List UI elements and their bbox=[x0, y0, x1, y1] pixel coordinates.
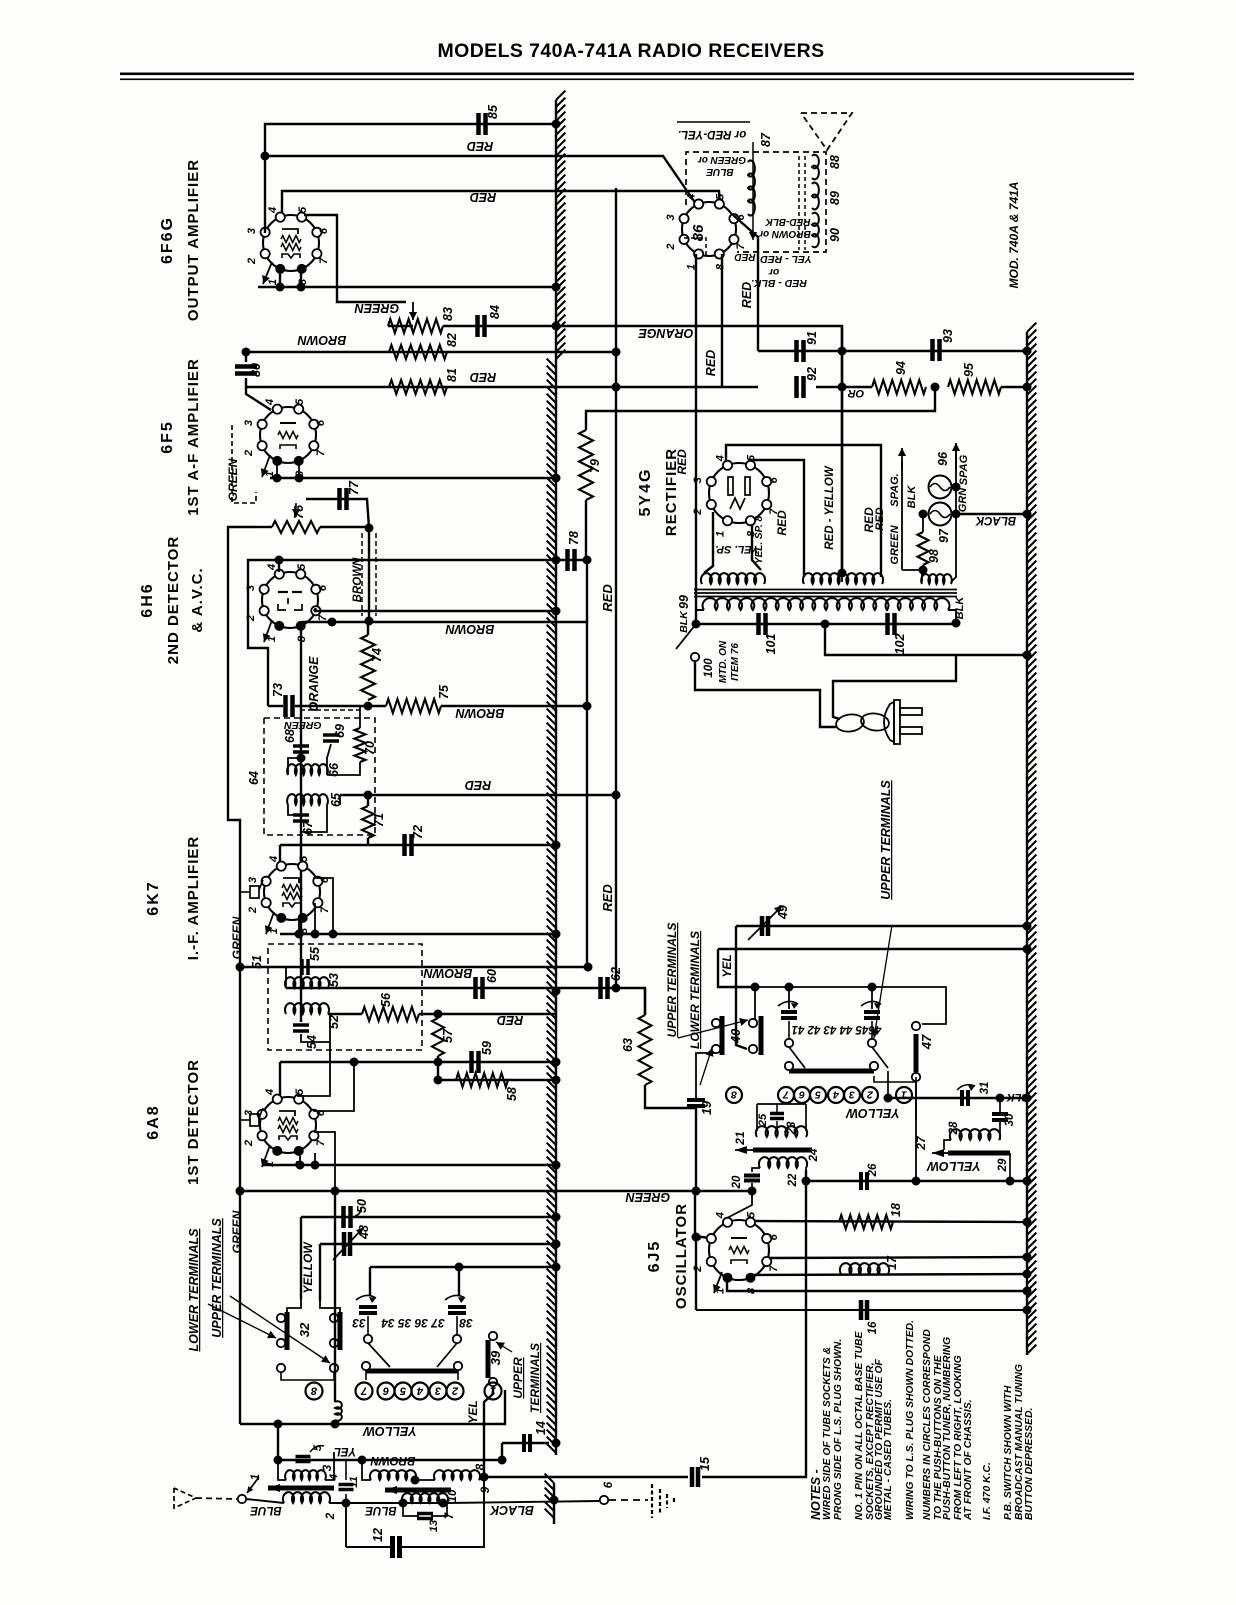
svg-text:MOD. 740A & 741A: MOD. 740A & 741A bbox=[1007, 182, 1021, 289]
row YELLOW y=1424 bbox=[240, 1390, 505, 1424]
row y=926 variable cap 49 bbox=[736, 925, 1027, 927]
trimmer cap 38 bbox=[448, 1305, 466, 1309]
resistor 74 bbox=[361, 635, 375, 700]
row y=478 cathode 6F5 bbox=[270, 477, 556, 479]
svg-text:4: 4 bbox=[833, 1089, 840, 1101]
svg-text:69: 69 bbox=[333, 724, 347, 738]
wire cap80 stubs bbox=[245, 352, 247, 362]
svg-text:6: 6 bbox=[318, 227, 330, 234]
bus junction y=326 bbox=[552, 322, 561, 331]
wire 29 to row 1181 bbox=[1009, 1153, 1011, 1181]
circled pushbutton osc 3 bbox=[844, 1087, 860, 1103]
antenna symbol bbox=[174, 1488, 196, 1508]
capacitor 55 bbox=[300, 959, 304, 975]
wire plate lead 6F6G bbox=[264, 156, 266, 233]
svg-text:BROWN: BROWN bbox=[297, 333, 347, 347]
svg-text:RED: RED bbox=[600, 884, 615, 912]
svg-text:BROWN: BROWN bbox=[352, 557, 364, 602]
right bus junction y=655 bbox=[1023, 651, 1032, 660]
svg-text:45 44 43 42: 45 44 43 42 bbox=[807, 1023, 869, 1035]
speaker voice coil 88 bbox=[812, 155, 819, 180]
coil 53 left leg bbox=[285, 967, 287, 988]
speaker cone dashed bbox=[801, 113, 852, 150]
wire pin1 to mains switch bbox=[695, 254, 697, 624]
svg-text:5: 5 bbox=[294, 398, 306, 405]
chassis bus segment bottom bbox=[553, 1483, 555, 1524]
svg-text:RED: RED bbox=[874, 507, 886, 530]
row y=1267 bbox=[370, 1266, 556, 1268]
svg-text:31: 31 bbox=[979, 1082, 991, 1095]
wire x=301 down bbox=[300, 1217, 302, 1299]
svg-text:84: 84 bbox=[488, 305, 502, 319]
coil 23 bbox=[756, 1126, 807, 1137]
svg-text:96: 96 bbox=[936, 451, 950, 466]
svg-text:5: 5 bbox=[312, 1444, 324, 1451]
centre tap dot bbox=[838, 569, 847, 578]
capacitor 77 row bbox=[306, 499, 369, 528]
circled pushbutton 3 bbox=[430, 1383, 447, 1400]
svg-text:YEL: YEL bbox=[466, 1400, 480, 1423]
svg-text:51: 51 bbox=[250, 955, 264, 969]
svg-text:91: 91 bbox=[805, 331, 819, 345]
row y=1222 resistor 18 bbox=[754, 1221, 1027, 1222]
svg-text:3: 3 bbox=[435, 1385, 441, 1397]
svg-text:5: 5 bbox=[399, 1385, 406, 1397]
row y=988 right cap 62 bbox=[556, 988, 645, 1015]
svg-text:55: 55 bbox=[308, 946, 322, 961]
svg-text:5: 5 bbox=[746, 1211, 758, 1218]
svg-text:5: 5 bbox=[297, 206, 309, 213]
svg-text:19: 19 bbox=[700, 1101, 714, 1115]
svg-text:SPAG.: SPAG. bbox=[889, 473, 901, 506]
wire res63 to cap19 bbox=[645, 1085, 696, 1108]
circled pushbutton osc 6 bbox=[794, 1087, 810, 1103]
bus junction y=560 bbox=[552, 556, 561, 565]
B+ RED vertical x=616 bbox=[615, 188, 617, 988]
svg-text:97: 97 bbox=[937, 528, 951, 543]
svg-text:ITEM 76: ITEM 76 bbox=[730, 643, 741, 681]
svg-text:2: 2 bbox=[245, 615, 257, 622]
wire coil65 to row bbox=[339, 795, 341, 805]
wire pin8 stub bbox=[279, 268, 281, 287]
capacitor 85 bbox=[476, 113, 481, 135]
svg-text:3: 3 bbox=[849, 1089, 855, 1101]
svg-text:GRN: GRN bbox=[957, 487, 969, 513]
svg-text:7: 7 bbox=[768, 1265, 780, 1272]
coil 53 bbox=[285, 977, 329, 988]
antenna trim row y=1098 bbox=[887, 1071, 889, 1098]
svg-text:92: 92 bbox=[805, 367, 819, 381]
6.3V winding to lamps bbox=[922, 570, 923, 582]
svg-text:71: 71 bbox=[372, 813, 386, 827]
svg-text:BLK: BLK bbox=[906, 485, 918, 509]
row y=988 BROWN to bus bbox=[286, 987, 556, 989]
svg-text:RED: RED bbox=[675, 449, 689, 475]
row y=1062 cap 59 bbox=[437, 1056, 439, 1080]
svg-text:& A.V.C.: & A.V.C. bbox=[189, 567, 206, 632]
slug arrow 1 bbox=[247, 1477, 259, 1493]
right bus junction y=387 bbox=[1023, 383, 1032, 392]
coil 66 bbox=[287, 764, 328, 775]
svg-text:6: 6 bbox=[768, 1233, 780, 1240]
cap16 row real bbox=[696, 1309, 1027, 1311]
svg-text:94: 94 bbox=[894, 361, 908, 375]
plate feed left bbox=[752, 460, 804, 577]
circled pushbutton osc 8 bbox=[726, 1087, 742, 1103]
row y=949 bbox=[718, 948, 1027, 950]
bus junction y=1443 bbox=[552, 1439, 561, 1448]
terminal bar 39 bbox=[486, 1340, 491, 1378]
svg-text:METAL - CASED TUBES.: METAL - CASED TUBES. bbox=[883, 1399, 894, 1520]
svg-text:85: 85 bbox=[486, 104, 500, 119]
transformer core bbox=[694, 589, 957, 591]
bus junction y=1165 bbox=[552, 1161, 561, 1170]
wire res79 to cap78 node bbox=[585, 500, 587, 560]
pilot lamp 97 bbox=[929, 503, 952, 526]
tube socket 86 bbox=[682, 202, 736, 256]
6A8 pin6 riser to row 1062 bbox=[313, 1062, 354, 1111]
speaker field coil 87 bbox=[748, 160, 755, 215]
svg-text:RED: RED bbox=[600, 584, 615, 612]
terminal bar 32 left bbox=[285, 1312, 290, 1350]
svg-text:BROWN: BROWN bbox=[445, 622, 495, 636]
svg-text:BROWN: BROWN bbox=[455, 706, 505, 720]
coil 9 bbox=[370, 1470, 416, 1480]
svg-text:90: 90 bbox=[828, 228, 842, 242]
bus junction y=845 bbox=[552, 841, 561, 850]
svg-text:RED: RED bbox=[704, 350, 718, 376]
row y=1460 bbox=[278, 1459, 502, 1461]
circled pushbutton 4 bbox=[412, 1383, 429, 1400]
svg-text:6: 6 bbox=[603, 1481, 615, 1488]
svg-text:29: 29 bbox=[997, 1158, 1009, 1172]
svg-text:YELLOW: YELLOW bbox=[301, 1241, 315, 1294]
svg-text:5: 5 bbox=[815, 1089, 821, 1101]
osc transformer rail bbox=[757, 1103, 806, 1105]
circled pushbutton 6 bbox=[378, 1383, 395, 1400]
svg-text:5: 5 bbox=[298, 855, 310, 862]
slug bar 29 arrow 27 bbox=[948, 1151, 1010, 1156]
svg-text:YELLOW: YELLOW bbox=[845, 1106, 900, 1120]
speaker coil 89 bbox=[812, 183, 819, 210]
svg-text:93: 93 bbox=[941, 329, 955, 343]
volume control resistor 76 bbox=[272, 521, 320, 533]
capacitor 69 bbox=[323, 733, 339, 737]
svg-text:RED - YELLOW: RED - YELLOW bbox=[824, 465, 836, 550]
wire coil9 frame bbox=[362, 1460, 371, 1480]
svg-text:4: 4 bbox=[264, 399, 276, 406]
bus junction y=991 bbox=[552, 987, 561, 996]
capacitor 68 bbox=[293, 744, 309, 748]
svg-text:64: 64 bbox=[247, 771, 261, 785]
row y=655 to bus bbox=[825, 624, 1027, 655]
svg-text:6: 6 bbox=[382, 1385, 389, 1397]
wire cathode row y=287 bbox=[258, 286, 556, 288]
svg-text:P.B. SWITCH SHOWN WITH: P.B. SWITCH SHOWN WITH bbox=[1003, 1385, 1014, 1520]
circled pushbutton 2 bbox=[447, 1383, 464, 1400]
svg-text:27: 27 bbox=[914, 1135, 928, 1151]
capacitor 14 row bbox=[502, 1442, 549, 1444]
coil 3 bbox=[285, 1470, 326, 1480]
svg-text:1ST A-F AMPLIFIER: 1ST A-F AMPLIFIER bbox=[185, 358, 202, 516]
bus junction y=1244 bbox=[552, 1240, 561, 1249]
trimmer cap 46 bbox=[864, 1010, 880, 1014]
svg-text:4: 4 bbox=[714, 455, 726, 462]
svg-text:4: 4 bbox=[266, 564, 278, 571]
trimmer cap 41 bbox=[781, 1010, 797, 1014]
dashed to ground bbox=[609, 1499, 648, 1501]
right bus junction y=1291 bbox=[1023, 1287, 1032, 1296]
svg-text:PRONG SIDE OF L.S. PLUG SHOWN.: PRONG SIDE OF L.S. PLUG SHOWN. bbox=[833, 1339, 844, 1520]
svg-text:RED - BLK.: RED - BLK. bbox=[751, 277, 807, 289]
wire plate row y=124 bbox=[265, 124, 556, 156]
wire x=335 grid coil bbox=[334, 1191, 336, 1402]
svg-text:2: 2 bbox=[665, 243, 677, 250]
wire res76 left leg AVC bbox=[228, 527, 256, 1424]
svg-text:8: 8 bbox=[715, 263, 727, 270]
svg-text:2ND DETECTOR: 2ND DETECTOR bbox=[165, 536, 182, 664]
svg-text:22: 22 bbox=[787, 1173, 799, 1187]
switch to plug bbox=[695, 661, 836, 727]
wire drops to pushbutton caps bbox=[369, 1267, 371, 1296]
svg-text:LOWER TERMINALS: LOWER TERMINALS bbox=[688, 931, 702, 1049]
circled pushbutton 5 bbox=[395, 1383, 412, 1400]
capacitor 12 loop bbox=[345, 1503, 347, 1547]
svg-text:60: 60 bbox=[485, 969, 499, 983]
resistor 82 bbox=[389, 345, 447, 359]
svg-text:49: 49 bbox=[776, 905, 790, 920]
svg-text:21: 21 bbox=[733, 1131, 747, 1146]
coil 2 bbox=[283, 1492, 330, 1503]
row y=1503 BLACK bbox=[346, 1502, 403, 1504]
svg-text:5: 5 bbox=[715, 193, 727, 200]
green dashed lead bbox=[300, 709, 360, 711]
svg-text:UPPER TERMINALS: UPPER TERMINALS bbox=[665, 923, 679, 1038]
row y=795 RED bbox=[340, 794, 616, 796]
svg-text:88: 88 bbox=[828, 155, 842, 169]
svg-text:101: 101 bbox=[764, 634, 778, 655]
right bus junction y=351 bbox=[1023, 347, 1032, 356]
svg-text:78: 78 bbox=[567, 531, 581, 545]
resistor 75 bbox=[386, 699, 441, 713]
mains switch 100 bbox=[676, 624, 696, 649]
switch lever 38 bbox=[437, 1343, 457, 1367]
capacitor 30 bbox=[992, 1112, 1008, 1116]
svg-text:BUTTON DEPRESSED.: BUTTON DEPRESSED. bbox=[1024, 1408, 1035, 1520]
cap46 riser bbox=[871, 987, 873, 1009]
dashed pin1 box bbox=[684, 238, 706, 256]
svg-text:30: 30 bbox=[1004, 1113, 1016, 1126]
svg-text:YEL. SP.: YEL. SP. bbox=[715, 543, 759, 555]
svg-text:6K7: 6K7 bbox=[145, 880, 162, 915]
tube V3 6H6 bbox=[262, 572, 318, 628]
svg-text:BLACK: BLACK bbox=[975, 514, 1016, 526]
leader arrows to bars bbox=[678, 1020, 748, 1038]
resistor 71 bbox=[362, 806, 374, 838]
svg-text:RED: RED bbox=[470, 370, 496, 384]
svg-text:1: 1 bbox=[714, 531, 726, 537]
lower contacts bbox=[277, 1364, 285, 1372]
resistor 81 bbox=[389, 380, 447, 394]
grid lead dashed shield x=369 bbox=[361, 533, 363, 616]
resistor 63 bbox=[644, 988, 646, 1015]
svg-text:82: 82 bbox=[445, 333, 459, 347]
circled pushbutton 1 bbox=[485, 1383, 502, 1400]
chassis bus left bbox=[555, 100, 557, 1455]
svg-text:BLUE: BLUE bbox=[250, 1504, 282, 1516]
row y=1257 pin7 bbox=[769, 1257, 1027, 1258]
svg-text:RED: RED bbox=[497, 1013, 523, 1027]
svg-text:7: 7 bbox=[317, 614, 329, 621]
svg-text:YEL. SP. 8: YEL. SP. 8 bbox=[754, 515, 765, 564]
svg-text:20: 20 bbox=[731, 1175, 743, 1189]
coil 22 bbox=[759, 1157, 807, 1168]
row y=1165 6A8 cathode bbox=[262, 1164, 556, 1166]
wire grid to resistor 83 bbox=[304, 215, 406, 302]
common bar tuner right bbox=[789, 1069, 874, 1074]
svg-text:18: 18 bbox=[889, 1203, 903, 1217]
svg-text:3: 3 bbox=[322, 1464, 334, 1471]
svg-text:72: 72 bbox=[411, 825, 425, 839]
svg-text:6H6: 6H6 bbox=[139, 582, 156, 617]
resistor 70 bbox=[355, 728, 366, 762]
svg-text:4: 4 bbox=[685, 194, 697, 201]
primary winding bbox=[703, 598, 950, 610]
leader to 39 bbox=[496, 1342, 512, 1352]
resistor 79 bbox=[579, 430, 593, 500]
svg-text:13: 13 bbox=[428, 1520, 440, 1532]
svg-text:UPPER TERMINALS: UPPER TERMINALS bbox=[879, 780, 893, 900]
bus junction y=287 bbox=[552, 283, 561, 292]
bus junction y=1062 bbox=[552, 1058, 561, 1067]
speaker plug box dashed bbox=[686, 152, 826, 252]
svg-text:100: 100 bbox=[703, 658, 715, 678]
svg-text:26: 26 bbox=[867, 1163, 879, 1177]
svg-text:GREEN: GREEN bbox=[354, 301, 399, 315]
right bus junction y=1274 bbox=[1023, 1270, 1032, 1279]
svg-text:16: 16 bbox=[867, 1321, 879, 1334]
svg-text:15: 15 bbox=[698, 1456, 712, 1471]
svg-text:3: 3 bbox=[665, 214, 677, 220]
svg-text:1ST DETECTOR: 1ST DETECTOR bbox=[185, 1059, 202, 1185]
svg-text:2: 2 bbox=[247, 907, 259, 914]
right bus junction y=926 bbox=[1023, 922, 1032, 931]
coil 22 wiring bbox=[752, 1168, 760, 1172]
row y=1014 res 56 bbox=[362, 1007, 419, 1021]
svg-text:57: 57 bbox=[441, 1028, 455, 1043]
svg-text:TERMINALS: TERMINALS bbox=[528, 1343, 542, 1413]
svg-text:99: 99 bbox=[677, 595, 691, 609]
slug bar antenna coil bbox=[268, 1486, 334, 1491]
wire 32 bars top link bbox=[287, 1299, 301, 1312]
svg-text:48: 48 bbox=[357, 1225, 371, 1240]
svg-text:25: 25 bbox=[757, 1113, 769, 1127]
capacitor 72 row y=845 bbox=[280, 844, 556, 846]
svg-text:YEL - RED: YEL - RED bbox=[760, 253, 812, 265]
svg-text:79: 79 bbox=[588, 459, 602, 473]
wire row y=326 segs bbox=[388, 325, 413, 327]
title double rule bbox=[120, 73, 1134, 76]
svg-text:77: 77 bbox=[347, 480, 361, 495]
svg-text:3: 3 bbox=[692, 1234, 704, 1240]
svg-text:50: 50 bbox=[355, 1199, 369, 1213]
svg-text:5: 5 bbox=[296, 563, 308, 570]
svg-text:3: 3 bbox=[692, 477, 704, 483]
svg-text:MODELS 740A-741A RADIO RECEIVE: MODELS 740A-741A RADIO RECEIVERS bbox=[437, 40, 824, 62]
svg-text:OUTPUT AMPLIFIER: OUTPUT AMPLIFIER bbox=[185, 159, 202, 321]
wire pin6 to cap91 row bbox=[733, 215, 758, 351]
primary right lead bbox=[948, 610, 956, 623]
heater arrow 6K7 bbox=[266, 912, 274, 934]
capacitor 13 bbox=[417, 1512, 433, 1516]
6A8 grid cap to row 1062 bbox=[279, 1062, 281, 1095]
svg-text:PUSH-BUTTON TUNER, NUMBERING: PUSH-BUTTON TUNER, NUMBERING bbox=[942, 1337, 953, 1520]
svg-text:39: 39 bbox=[488, 1350, 503, 1365]
row y=1080 res 58 bbox=[438, 1079, 556, 1081]
svg-text:81: 81 bbox=[445, 368, 459, 382]
riser row949 to feed row bbox=[718, 949, 755, 987]
svg-text:RED: RED bbox=[470, 190, 496, 204]
svg-text:75: 75 bbox=[437, 684, 451, 699]
leader arrow into box bbox=[752, 142, 754, 240]
capacitor 54 bbox=[293, 1023, 309, 1027]
grid wire x=369 bbox=[368, 528, 370, 621]
row y=411 bbox=[586, 387, 935, 430]
resistor 57 bbox=[432, 1018, 444, 1056]
bus junction y=1080 bbox=[552, 1076, 561, 1085]
svg-text:80: 80 bbox=[249, 363, 263, 377]
capacitor 80 bbox=[235, 364, 257, 369]
svg-text:2: 2 bbox=[867, 1089, 874, 1101]
circled pushbutton osc 2 bbox=[862, 1087, 878, 1103]
row y=611 6H6 pin7 bbox=[314, 610, 556, 612]
coil 65 bbox=[287, 794, 328, 805]
slug bar 24 with arrow 21 bbox=[753, 1148, 812, 1153]
heater arrow 6A8 bbox=[262, 1145, 270, 1167]
terminal bar 40 left bbox=[720, 1016, 725, 1055]
svg-text:6J5: 6J5 bbox=[646, 1240, 663, 1273]
svg-text:GREEN or: GREEN or bbox=[697, 154, 746, 165]
terminal 6 bbox=[600, 1496, 608, 1504]
mains plug bbox=[884, 702, 894, 742]
riser bar2 top bbox=[754, 991, 756, 1019]
svg-text:4: 4 bbox=[714, 1212, 726, 1219]
svg-text:8: 8 bbox=[731, 1089, 737, 1101]
circled pushbutton osc 5 bbox=[810, 1087, 826, 1103]
svg-text:GREEN: GREEN bbox=[226, 458, 240, 501]
svg-text:95: 95 bbox=[962, 362, 976, 377]
common bar bbox=[366, 1369, 458, 1374]
svg-text:76: 76 bbox=[292, 504, 306, 519]
capacitor 15 bbox=[690, 1467, 695, 1487]
svg-text:98: 98 bbox=[927, 549, 941, 563]
capacitor 67 bbox=[293, 813, 309, 817]
svg-text:RED: RED bbox=[467, 139, 493, 153]
svg-text:I.-F. AMPLIFIER: I.-F. AMPLIFIER bbox=[185, 836, 202, 960]
capacitor 78 bbox=[556, 559, 587, 561]
wire centre tap vertical x=842 bbox=[841, 326, 843, 570]
wire RED row y=156 bbox=[265, 156, 696, 204]
power transformer windings top bbox=[701, 573, 765, 584]
row y=351 with caps 91 93 bbox=[758, 350, 1027, 352]
svg-text:GREEN: GREEN bbox=[625, 1190, 670, 1204]
cap 5 trimmer bbox=[296, 1455, 311, 1459]
circled pushbutton osc 1 bbox=[896, 1087, 912, 1103]
heater arrow 6F6G bbox=[263, 262, 272, 284]
svg-text:6A8: 6A8 bbox=[145, 1104, 162, 1139]
capacitor 84 bbox=[475, 315, 480, 337]
svg-text:ORANGE: ORANGE bbox=[307, 656, 321, 712]
